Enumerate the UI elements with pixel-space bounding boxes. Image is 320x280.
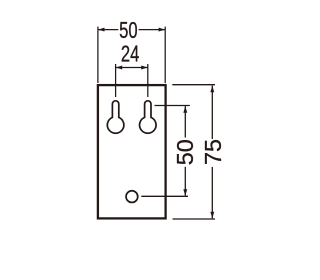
svg-text:50: 50 xyxy=(119,17,138,43)
svg-text:50: 50 xyxy=(172,139,198,165)
svg-text:75: 75 xyxy=(200,139,226,165)
svg-text:24: 24 xyxy=(121,41,140,67)
